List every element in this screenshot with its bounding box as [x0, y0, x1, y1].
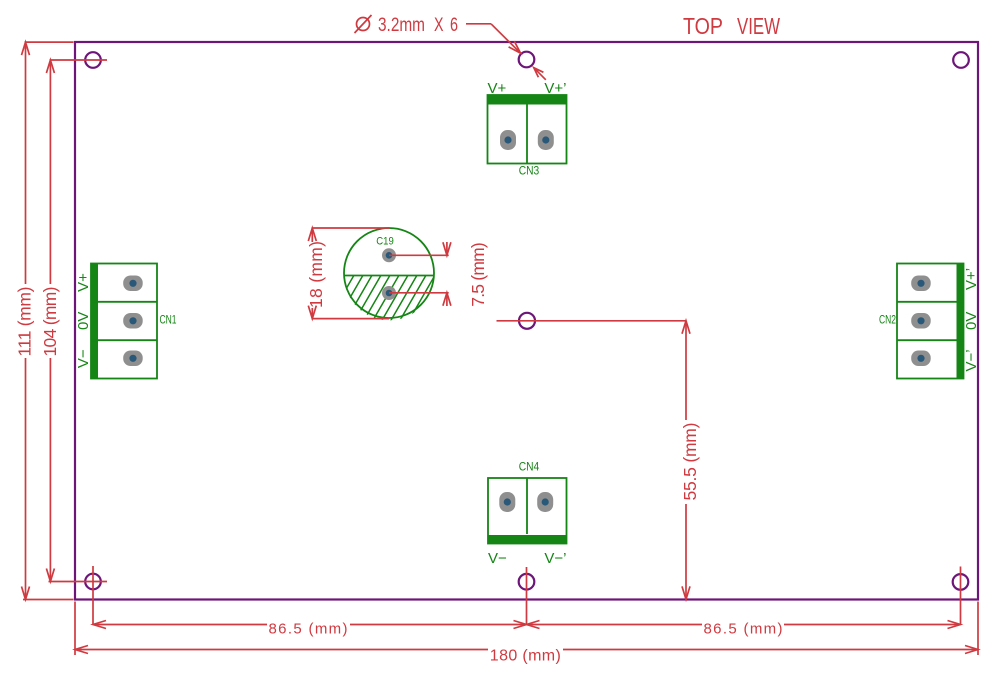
svg-text:CN4: CN4 — [519, 460, 540, 474]
svg-text:V+: V+ — [488, 80, 507, 97]
svg-text:180 (mm): 180 (mm) — [490, 648, 561, 665]
svg-text:0V: 0V — [75, 312, 92, 330]
svg-text:18 (mm): 18 (mm) — [306, 241, 326, 308]
svg-text:86.5 (mm): 86.5 (mm) — [704, 621, 783, 638]
svg-text:TOP: TOP — [683, 13, 723, 39]
svg-text:6: 6 — [450, 15, 458, 36]
svg-text:VIEW: VIEW — [737, 13, 780, 39]
svg-text:CN2: CN2 — [879, 313, 896, 327]
svg-text:X: X — [434, 15, 444, 36]
svg-text:V+’: V+’ — [544, 80, 566, 97]
svg-text:V+’: V+’ — [963, 268, 980, 290]
svg-text:V−’: V−’ — [544, 550, 566, 567]
svg-text:0V: 0V — [963, 312, 980, 330]
svg-text:7.5 (mm): 7.5 (mm) — [468, 242, 488, 307]
svg-text:CN3: CN3 — [519, 164, 540, 178]
svg-text:V+: V+ — [75, 273, 92, 292]
svg-text:86.5 (mm): 86.5 (mm) — [269, 621, 348, 638]
svg-text:V−’: V−’ — [963, 349, 980, 371]
svg-text:3.2mm: 3.2mm — [378, 15, 425, 36]
svg-text:V−: V− — [75, 349, 92, 368]
svg-text:111 (mm): 111 (mm) — [15, 287, 35, 357]
svg-text:104 (mm): 104 (mm) — [40, 287, 60, 357]
svg-text:V−: V− — [488, 550, 507, 567]
svg-text:CN1: CN1 — [160, 313, 177, 327]
svg-text:C19: C19 — [376, 236, 394, 248]
svg-text:55.5 (mm): 55.5 (mm) — [680, 423, 700, 501]
